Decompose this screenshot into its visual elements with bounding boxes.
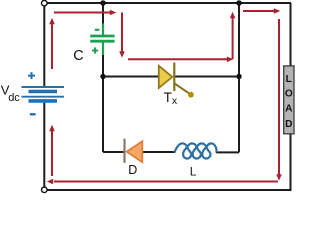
svg-text:L: L: [190, 164, 197, 178]
svg-text:O: O: [285, 89, 293, 100]
svg-text:A: A: [285, 104, 293, 115]
svg-text:D: D: [128, 163, 137, 177]
svg-text:L: L: [286, 74, 292, 85]
svg-text:C: C: [73, 48, 83, 64]
svg-text:D: D: [285, 119, 292, 130]
svg-text:T: T: [164, 90, 172, 105]
svg-text:dc: dc: [8, 92, 20, 104]
svg-text:x: x: [172, 95, 178, 107]
